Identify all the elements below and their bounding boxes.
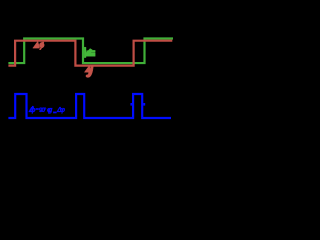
svg-text:Δϕ: Δϕ — [28, 107, 36, 114]
node blue tick right on pulse 3 — [143, 103, 145, 106]
node blue formula text — [28, 106, 65, 114]
node blue tick left on pulse 3 — [130, 103, 132, 106]
wire blue XOR output waveform — [8, 94, 171, 118]
svg-text:Δφ: Δφ — [56, 107, 65, 114]
wire red signal A waveform — [8, 41, 172, 66]
wire green signal B waveform — [8, 39, 173, 64]
node green label phi — [84, 47, 95, 57]
node red label delta-phi 1 — [33, 41, 44, 50]
svg-text:90°: 90° — [39, 106, 47, 114]
svg-text:φg: φg — [47, 107, 53, 114]
node red label delta-phi 2 — [84, 65, 93, 77]
